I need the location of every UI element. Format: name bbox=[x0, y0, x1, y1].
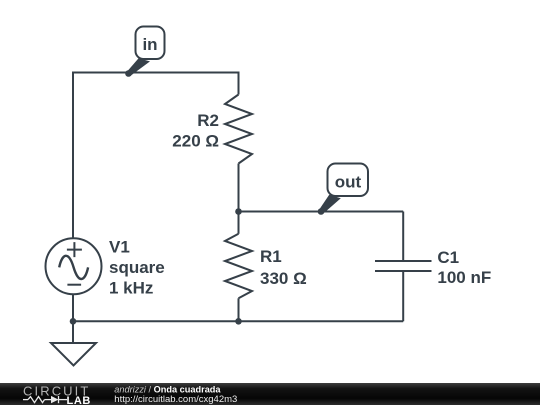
svg-text:out: out bbox=[335, 172, 362, 191]
svg-text:R1: R1 bbox=[260, 247, 282, 266]
svg-text:R2: R2 bbox=[197, 111, 219, 130]
svg-text:in: in bbox=[142, 35, 157, 54]
svg-text:100 nF: 100 nF bbox=[437, 268, 491, 287]
svg-text:LAB: LAB bbox=[67, 395, 91, 405]
svg-text:square: square bbox=[109, 258, 165, 277]
svg-text:V1: V1 bbox=[109, 238, 130, 257]
svg-text:http://circuitlab.com/cxg42m3: http://circuitlab.com/cxg42m3 bbox=[114, 394, 237, 405]
svg-text:C1: C1 bbox=[437, 248, 459, 267]
svg-text:1 kHz: 1 kHz bbox=[109, 278, 153, 297]
svg-text:330 Ω: 330 Ω bbox=[260, 269, 307, 288]
svg-text:220 Ω: 220 Ω bbox=[172, 131, 219, 150]
